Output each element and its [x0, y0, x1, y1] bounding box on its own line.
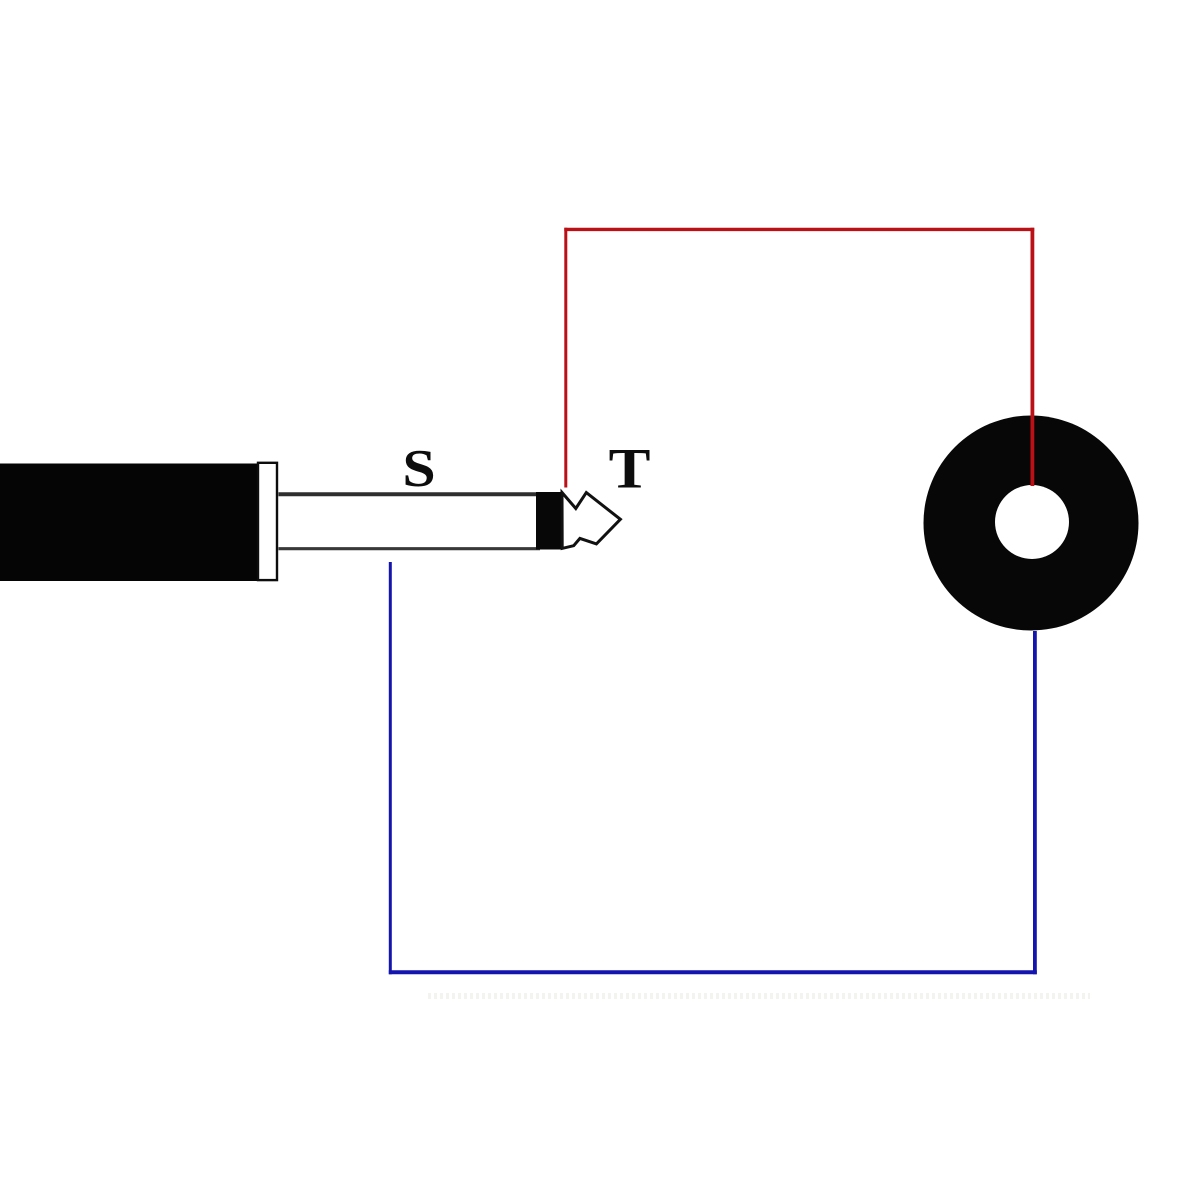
wire red top horizontal [564, 228, 1034, 231]
donut hole [995, 485, 1069, 559]
wire blue vertical to jack [1033, 631, 1037, 974]
plug barrel [0, 464, 257, 582]
plug tip (T) arrow [562, 493, 620, 549]
plug shaft (sleeve S) [279, 493, 539, 548]
shaft bottom line [279, 547, 541, 550]
wire red vertical from tip [564, 228, 567, 488]
insulator band [536, 492, 563, 550]
plug collar [258, 463, 277, 580]
watermark dashed line [428, 993, 1090, 999]
wire red vertical to jack center [1031, 228, 1035, 486]
wire blue vertical from sleeve [389, 562, 392, 974]
svg-text:S: S [402, 440, 435, 498]
speaker/jack donut [924, 416, 1139, 631]
wire blue bottom horizontal [389, 970, 1037, 974]
svg-text:T: T [609, 437, 651, 500]
shaft top line [279, 492, 541, 496]
